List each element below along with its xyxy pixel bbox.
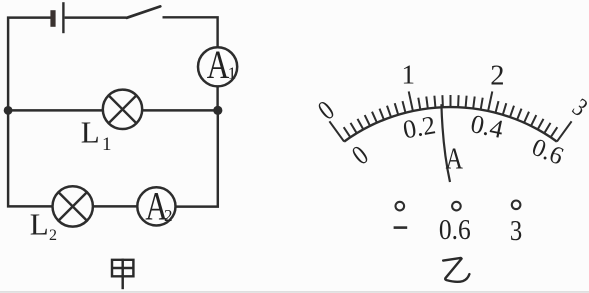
svg-text:0.6: 0.6: [439, 214, 471, 246]
svg-text:3: 3: [510, 214, 522, 246]
wire node B down to bottom-right corner to ammeter A2: [176, 110, 218, 206]
wire ammeter A2 to lamp L2: [93, 205, 137, 207]
ammeter A1 subscript 1: [228, 63, 237, 82]
wire top-left and left side (battery minus to node A): [8, 18, 50, 111]
ammeter A2 letter A: [145, 184, 168, 229]
svg-text:A: A: [207, 42, 230, 87]
ammeter A1 circle: [198, 47, 237, 86]
battery B1 negative plate: [50, 10, 55, 27]
label 0.6 terminal: [439, 214, 471, 246]
svg-text:1: 1: [102, 134, 112, 155]
meter unit letter A: [446, 142, 463, 177]
meter outer label 2: [490, 61, 504, 92]
svg-text:L: L: [81, 115, 100, 150]
terminal negative: [396, 202, 405, 211]
svg-text:2: 2: [164, 206, 173, 225]
terminal 0.6: [452, 202, 461, 211]
label jia (circuit diagram caption): [112, 259, 133, 290]
meter outer label 0: [312, 95, 340, 126]
label yi (meter caption): [443, 258, 469, 282]
ammeter A2 circle: [137, 187, 175, 225]
lamp L1 cross: [109, 95, 137, 123]
node A junction dot: [4, 106, 13, 115]
label L2: [30, 207, 57, 245]
svg-text:A: A: [446, 142, 463, 177]
lamp L2 cross: [58, 192, 87, 221]
meter inner label 0.2: [401, 110, 438, 144]
meter needle: [441, 104, 450, 182]
label minus: [394, 226, 408, 229]
label 3 terminal: [510, 214, 522, 246]
meter inner label 0.4: [468, 109, 506, 144]
wire left lower (node A to bottom-left corner to lamp L2): [8, 110, 52, 206]
ammeter A1 letter A: [207, 42, 230, 87]
lamp L1 circle: [103, 90, 142, 129]
svg-text:0.2: 0.2: [401, 110, 438, 144]
meter inner label 0: [346, 140, 374, 171]
switch S1 blade: [127, 6, 161, 17]
wire A1 bottom to node B: [216, 86, 218, 110]
meter inner label 0.6: [528, 134, 567, 171]
wire node A to lamp L1: [8, 109, 103, 111]
wire lamp L1 to node B: [142, 109, 218, 111]
meter outer label 1: [401, 59, 415, 89]
meter outer label 3: [567, 93, 589, 122]
wire battery plus to switch pivot: [65, 16, 127, 18]
bottom scan edge line: [0, 291, 589, 292]
label L1: [81, 115, 112, 155]
battery B1 positive plate: [62, 2, 64, 33]
svg-text:1: 1: [401, 59, 415, 89]
svg-text:2: 2: [49, 227, 57, 244]
meter scale ticks: [329, 91, 571, 141]
svg-text:1: 1: [228, 63, 237, 82]
meter scale arc: [344, 107, 557, 142]
ammeter A2 subscript 2: [164, 206, 173, 225]
svg-text:2: 2: [490, 61, 504, 92]
lamp L2 circle: [52, 186, 92, 226]
terminal 3: [512, 201, 521, 210]
node B junction dot: [213, 106, 222, 115]
wire switch contact to corner to ammeter A1 top: [163, 17, 218, 47]
svg-text:L: L: [30, 207, 49, 242]
